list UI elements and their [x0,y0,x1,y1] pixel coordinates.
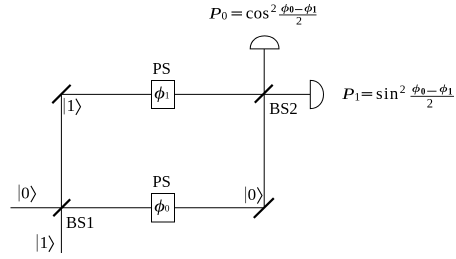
wire: upper arm mirror to PS1 [61,93,151,95]
mirror bottom-right [254,198,274,218]
svg-text:2: 2 [400,84,406,96]
beam splitter BS1 [53,199,70,216]
svg-text:1: 1 [448,86,453,96]
svg-text:ϕ: ϕ [439,83,447,95]
svg-text:ϕ: ϕ [281,2,289,14]
wire: upper arm PS1 to BS2 [175,93,265,95]
detector D0 (top dome) [250,36,279,49]
svg-text:ϕ: ϕ [304,2,312,14]
svg-text:ϕ: ϕ [412,83,420,95]
label phi1 in box [154,84,170,103]
svg-text:0: 0 [165,205,170,215]
svg-text:1: 1 [312,5,317,15]
svg-text:2: 2 [296,13,302,27]
svg-text:1: 1 [40,233,49,252]
svg-text:BS1: BS1 [66,213,94,232]
beam splitter BS2 [255,85,273,103]
svg-text:1: 1 [67,96,76,115]
wire: BS2 to right detector [264,93,310,95]
ket |0> (lower arm) [246,185,262,204]
svg-text:2: 2 [427,97,433,111]
svg-text:0: 0 [248,185,257,204]
svg-text:P: P [341,85,354,103]
svg-text:BS2: BS2 [269,99,297,118]
phase shifter box PS phi1 [152,81,175,109]
phase shifter box PS phi0 [152,194,175,223]
svg-text:ϕ: ϕ [154,197,165,216]
ket |1> (bottom input) [37,233,53,252]
wire: left vertical BS1 to top-left mirror [60,94,62,207]
svg-text:P: P [208,4,221,22]
svg-text:ϕ: ϕ [154,84,165,103]
formula P1 = sin^2 (phi0-phi1)/2 [341,83,454,111]
wire: lower arm PS0 to bottom-right mirror [175,207,265,209]
formula P0 = cos^2 (phi0-phi1)/2 [208,2,317,27]
svg-text:cos: cos [246,4,270,23]
svg-text:1: 1 [165,92,170,102]
wire: right vertical bottom mirror to BS2 [263,94,265,207]
wire: input horizontal into BS1 [11,207,152,209]
wire: input vertical into BS1 from bottom [60,208,62,253]
svg-text:0: 0 [21,183,30,202]
svg-text:0: 0 [421,86,426,96]
svg-text:PS: PS [153,59,171,78]
svg-text:0: 0 [289,5,294,15]
svg-text:sin: sin [376,84,399,103]
svg-text:PS: PS [153,172,171,191]
mirror top-left [52,85,70,103]
ket |0> (left input) [19,183,35,202]
svg-text:1: 1 [354,91,360,103]
svg-text:2: 2 [271,3,277,15]
detector D1 (right dome) [310,80,323,108]
wire: BS2 up to top detector [263,49,265,95]
label phi0 in box [154,197,170,216]
svg-text:0: 0 [222,11,228,23]
ket |1> (upper arm) [64,96,80,115]
